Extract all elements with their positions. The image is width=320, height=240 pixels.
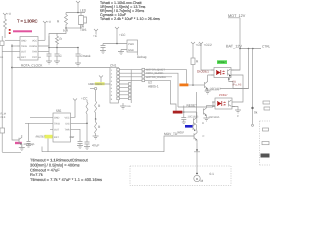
wire RESET net to Q9 <box>42 136 194 152</box>
highlight orange net <box>179 84 188 87</box>
svg-text:Cmask: Cmask <box>81 54 91 58</box>
motor M1 <box>196 164 198 174</box>
capacitor C5 small <box>181 118 186 123</box>
power +CC <box>191 42 195 58</box>
wire Q6 to base bus <box>184 112 197 123</box>
svg-text:2SC1815: 2SC1815 <box>24 143 35 146</box>
svg-text:RST: RST <box>54 136 59 139</box>
wire to PWR pin <box>103 43 127 45</box>
wire THR down <box>74 129 81 139</box>
resistor R2 at x57 <box>56 33 59 47</box>
optocoupler U4 body <box>215 98 232 109</box>
svg-text:5MIN: 5MIN <box>96 83 102 86</box>
small comp c <box>262 142 269 145</box>
U1 left pin stubs <box>17 40 20 57</box>
svg-text:+C: +C <box>93 34 98 38</box>
U5 pin stubs <box>50 117 53 137</box>
transistor Q10 npn <box>19 135 22 148</box>
U3 pin stubs <box>211 70 234 75</box>
op IC U1 555 body <box>20 37 38 61</box>
svg-text:Tchatt = 2.4k * 10uF * 1.10 =: Tchatt = 2.4k * 10uF * 1.10 = 26.4ms <box>100 17 160 21</box>
wires CN1 rows to mid column <box>119 70 142 81</box>
svg-text:OUT: OUT <box>54 128 60 131</box>
U4 pin stubs <box>212 102 235 107</box>
svg-text:DIS: DIS <box>66 122 70 125</box>
svg-text:/Pu_PS: /Pu_PS <box>233 84 242 87</box>
wire orange to Q5 base <box>188 84 204 86</box>
U3 LED red <box>217 71 221 75</box>
svg-text:SRC: SRC <box>88 83 94 86</box>
svg-text:CTRL: CTRL <box>262 45 270 49</box>
wire opto1 pin3 down to opto2 pin4 <box>234 75 243 102</box>
capacitor C2 x57 <box>55 48 60 62</box>
wire R6 down to base node <box>192 65 194 86</box>
note timeout formulas <box>30 158 102 182</box>
wire GND pin to left bus <box>5 39 17 41</box>
wire net4 to red band <box>145 80 176 111</box>
wire THR node <box>41 51 49 53</box>
resistor R3 left branch <box>65 13 68 29</box>
IC U5 555 body <box>53 113 71 142</box>
left vertical bus A <box>1 36 3 152</box>
ground Q10 <box>19 144 25 151</box>
pin squares column C <box>142 68 145 81</box>
svg-text:M: M <box>201 179 204 183</box>
transistor Q7 npn mid <box>203 106 206 119</box>
power +V <box>76 1 80 13</box>
svg-text:THR: THR <box>32 51 37 54</box>
svg-text:PWR: PWR <box>128 43 134 46</box>
resistor R6 box style <box>191 58 195 65</box>
wire node down <box>95 90 97 101</box>
connector CN1 body <box>110 68 119 104</box>
ground U4 <box>235 110 241 113</box>
capacitor C7 <box>85 142 90 147</box>
svg-text:ROTA_CLOCK: ROTA_CLOCK <box>21 63 43 67</box>
+V supply for U1 VCC <box>43 21 47 40</box>
ground sym <box>118 52 124 55</box>
highlight yellow RESET <box>45 135 53 139</box>
wire red to node <box>182 111 183 113</box>
wire rail drop B <box>233 49 249 89</box>
svg-text:MOTOR_ON/SW: MOTOR_ON/SW <box>146 76 166 79</box>
highlight magenta <box>15 142 22 144</box>
svg-text:+CC: +CC <box>119 33 126 37</box>
power +V supply top left <box>3 13 7 19</box>
svg-text:MOV_TD: MOV_TD <box>164 132 178 136</box>
net labels right of column C <box>146 69 166 79</box>
capacitor C3 x78 <box>76 48 81 64</box>
highlight green label PC817 <box>217 60 227 64</box>
wire reset to opto2 anode <box>178 102 215 107</box>
wire TRIG left <box>25 122 50 124</box>
U5 pin labels <box>54 116 75 139</box>
small comp d dark <box>261 154 270 158</box>
dashed enclosure motor <box>130 166 231 186</box>
main output vertical <box>198 106 200 108</box>
mid vertical bus <box>130 70 132 103</box>
transistor Q6 npn small <box>193 124 196 130</box>
svg-text:47uF: 47uF <box>92 144 99 148</box>
svg-text:CNT: CNT <box>70 136 75 139</box>
node ROTA_CLOCK junction <box>11 67 13 69</box>
power +CC2 <box>199 42 203 70</box>
svg-text:GND: GND <box>126 105 131 108</box>
power +V <box>73 99 77 118</box>
svg-text:Debug: Debug <box>137 55 147 59</box>
svg-text:CLK: CLK <box>1 116 6 119</box>
ground for C1 <box>46 61 52 64</box>
node open circle <box>94 87 96 89</box>
wire TRIG pin from x12 bus <box>12 45 17 47</box>
svg-text:CN1: CN1 <box>110 64 117 68</box>
highlight blue band <box>185 125 193 128</box>
U1 pin labels <box>21 39 38 59</box>
svg-text:0.1: 0.1 <box>210 172 215 176</box>
svg-text:0k: 0k <box>254 111 258 115</box>
svg-text:MOTOR_ON: MOTOR_ON <box>205 89 219 92</box>
svg-text:2SC1815: 2SC1815 <box>209 116 220 119</box>
ground under CN1 <box>120 103 126 109</box>
svg-text:LED: LED <box>80 9 87 13</box>
wire U4 emitter to ground <box>232 107 238 111</box>
transistor Q8 npn <box>193 116 196 128</box>
resistor R7 <box>86 100 88 120</box>
horizontal wire y47.5 <box>49 47 78 49</box>
wire GND left <box>30 116 50 118</box>
ground Q7 <box>203 118 209 121</box>
ground for C3 <box>75 63 81 66</box>
svg-text:GND: GND <box>128 49 134 52</box>
mid pin squares column B <box>128 83 131 100</box>
svg-text:C: C <box>237 115 239 118</box>
ground C7 <box>84 147 90 150</box>
svg-text:GND: GND <box>54 116 60 119</box>
wire VCC to +V <box>41 39 45 41</box>
connector J PWR box <box>127 40 138 52</box>
wire rail drop C <box>252 49 254 125</box>
wire net2 to reset <box>145 73 178 107</box>
U1 right pin stubs <box>38 40 41 57</box>
U4 phototransistor <box>229 100 232 106</box>
svg-text:Ttimeout = 7.7k * 47uF * 1.1 =: Ttimeout = 7.7k * 47uF * 1.1 = 400.16ms <box>30 177 102 182</box>
highlight net CHATTER (magenta band) <box>13 30 32 32</box>
note chatter formulas <box>100 1 160 21</box>
wire OUT pin to far left bus <box>2 51 17 53</box>
vertical net x12 TRIG down to clock bus <box>11 44 13 133</box>
svg-text:TRS: TRS <box>80 28 86 32</box>
resistor R4 vertical x96 <box>95 101 97 119</box>
ground Q5 <box>205 91 211 94</box>
wire output to cap node <box>49 28 66 48</box>
svg-text:C: C <box>203 135 205 138</box>
svg-text:T = 1.30RC: T = 1.30RC <box>17 19 38 24</box>
svg-text:MOTOR_QUIET: MOTOR_QUIET <box>146 69 165 72</box>
U3 phototransistor <box>228 69 231 75</box>
resistor box right a <box>263 101 270 104</box>
svg-text:CNT: CNT <box>32 56 37 59</box>
svg-text:DISCH: DISCH <box>30 45 38 48</box>
small comp b <box>263 128 269 131</box>
wire top rail <box>66 12 85 14</box>
svg-text:R: R <box>202 122 204 125</box>
wire under yellow into CN1 <box>90 83 110 85</box>
svg-text:VCC: VCC <box>32 39 37 42</box>
wire ROTA_CLOCK bus <box>12 67 110 69</box>
capacitor C4 <box>101 44 106 51</box>
wire DISCH to R node <box>41 36 49 46</box>
ground x96 <box>93 136 99 139</box>
svg-text:OUT: OUT <box>21 51 27 54</box>
svg-text:TRIG: TRIG <box>21 45 27 48</box>
wire Q7 collector to opto2 cathode <box>206 105 215 107</box>
CN1 inner pin text <box>111 69 113 101</box>
svg-text:RST: RST <box>21 56 26 59</box>
U4 LED red <box>218 102 222 106</box>
resistor R chatter <box>4 19 7 38</box>
svg-text:ROTA_CLOCK: ROTA_CLOCK <box>146 72 164 75</box>
svg-text:GND: GND <box>21 39 27 42</box>
wire from x12 bus <box>12 133 19 140</box>
left vertical bus B <box>4 39 6 41</box>
resistor R5 lower <box>95 119 97 136</box>
svg-text:555: 555 <box>56 109 62 113</box>
svg-text:THR: THR <box>65 128 70 131</box>
ground C4 <box>100 51 106 54</box>
wire net1 to orange <box>145 70 187 84</box>
svg-text:VCC: VCC <box>64 116 69 119</box>
optocoupler U3 body <box>214 68 231 78</box>
left connector pads <box>0 128 5 133</box>
wire net3 right stub <box>145 76 172 78</box>
transistor Q9 npn <box>194 131 197 143</box>
wire left ground rail <box>2 151 21 153</box>
wire +CC2 to opto anode <box>201 69 214 71</box>
capacitor C6 <box>78 139 83 146</box>
CN1 pin squares <box>117 68 120 99</box>
power +V above yellow <box>99 76 103 83</box>
svg-text:+CC: +CC <box>81 97 88 101</box>
svg-text:2SC1815: 2SC1815 <box>188 116 199 119</box>
wire bottom rail <box>66 27 81 29</box>
svg-text:TRIG: TRIG <box>54 122 60 125</box>
resistor box right b <box>264 107 270 110</box>
dashed enclosure right <box>260 121 271 165</box>
left pad top <box>0 41 4 46</box>
capacitor C8 small <box>27 123 31 145</box>
svg-text:PC817: PC817 <box>218 61 226 64</box>
wire Q5 collector to opto cathode <box>208 75 214 79</box>
svg-text:AB05-1: AB05-1 <box>148 85 159 89</box>
ground for C2 <box>54 61 60 64</box>
transistor Q loop right branch <box>79 13 87 29</box>
wire MOT vertical <box>231 18 240 70</box>
wire DISCH to R7 <box>74 120 88 143</box>
wire VCC to +V <box>74 116 76 119</box>
wire opto1 collector to MOT rail <box>231 69 240 71</box>
power +V cap small <box>94 29 98 34</box>
transistor Q5 npn <box>205 79 208 91</box>
U3 emitter wire down <box>228 78 230 80</box>
svg-text:/A5V: /A5V <box>177 131 185 135</box>
ground C6 <box>77 146 83 149</box>
node dot and bar <box>196 149 198 151</box>
wire GND pin <box>121 50 127 52</box>
svg-text:/RESET: /RESET <box>36 135 46 139</box>
svg-text:PC817: PC817 <box>219 93 228 97</box>
power +V main <box>115 27 119 44</box>
capacitor C1 x49 <box>47 48 52 62</box>
wire BAT rail <box>240 48 261 50</box>
highlight yellow net SRC <box>95 82 105 85</box>
svg-text:+CC2: +CC2 <box>204 43 212 47</box>
highlight red band <box>173 111 183 114</box>
svg-text:MOT_12V: MOT_12V <box>228 14 246 18</box>
DRC marker dots <box>9 29 11 31</box>
